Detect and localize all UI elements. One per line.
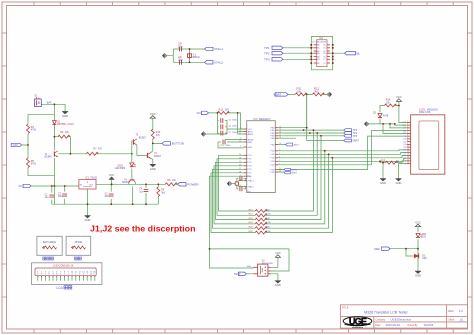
ground lcd left [380, 179, 386, 186]
MCU left pins [244, 129, 247, 187]
LCD pin labels [402, 122, 407, 165]
LCD-CON pin stubs [38, 276, 95, 281]
svg-text:100n: 100n [247, 266, 253, 268]
svg-text:ZD1: ZD1 [422, 234, 427, 236]
decoupling caps wires [206, 113, 243, 134]
svg-text:IC1: IC1 [85, 176, 89, 179]
J1 caption glyphs [43, 257, 54, 260]
svg-text:OUT: OUT [89, 184, 94, 186]
svg-text:Y0: Y0 [323, 56, 325, 58]
svg-text:TeCh03: TeCh03 [424, 323, 434, 327]
VCC symbol [415, 220, 421, 226]
svg-text:GND: GND [248, 147, 253, 149]
capacitor C12 [240, 187, 242, 192]
svg-text:470k: 470k [31, 129, 37, 132]
junction [382, 123, 384, 125]
junction [157, 183, 159, 185]
svg-text:TEST: TEST [234, 272, 241, 276]
svg-text:VCC: VCC [109, 174, 114, 177]
svg-text:13: 13 [407, 154, 409, 156]
MCU IC3 body [247, 121, 276, 193]
svg-text:TP1: TP1 [264, 46, 270, 50]
encoder pins [253, 267, 271, 274]
junction [87, 203, 89, 205]
junction [132, 203, 134, 205]
svg-text:GND: GND [248, 142, 253, 144]
junction [54, 103, 56, 105]
MCU right pins [275, 128, 278, 172]
resistor R16 [385, 104, 397, 107]
capacitor C1 [49, 195, 54, 197]
wire [369, 101, 407, 133]
transistor T4 pnp [129, 177, 136, 184]
capacitor C11 [240, 176, 242, 181]
svg-text:16: 16 [407, 162, 409, 164]
capacitor C6 [221, 124, 223, 129]
svg-text:14: 14 [407, 157, 409, 159]
svg-text:9: 9 [407, 143, 408, 145]
resistor R13 [218, 111, 230, 114]
svg-text:LED1: LED1 [117, 165, 123, 167]
svg-text:Y2: Y2 [323, 63, 325, 65]
svg-text:REF: REF [375, 247, 381, 251]
svg-text:1/1: 1/1 [460, 318, 464, 322]
node BL label right [345, 52, 356, 55]
svg-text:ADC7: ADC7 [294, 144, 301, 147]
ground under battery [62, 111, 68, 118]
junction [51, 185, 53, 187]
wire [167, 49, 205, 62]
svg-text:IC3: IC3 [254, 118, 259, 121]
svg-text:LED-3MM: LED-3MM [115, 168, 125, 170]
svg-text:X0: X0 [323, 45, 325, 47]
svg-text:CAT: CAT [13, 143, 19, 147]
junction [131, 153, 133, 155]
svg-text:15: 15 [407, 159, 409, 161]
transistor T2 npn [145, 152, 152, 159]
svg-text:UGE Electronics: UGE Electronics [391, 318, 412, 322]
LCD pins [407, 122, 411, 163]
ground [275, 281, 281, 288]
svg-text:REV:: REV: [448, 309, 454, 313]
node XTAL1 label [205, 47, 214, 50]
svg-text:470: 470 [98, 147, 103, 150]
svg-text:Y1: Y1 [323, 59, 325, 61]
resistor R23 [255, 218, 267, 221]
resistor R10 [151, 129, 154, 139]
IC2 right pins [327, 45, 330, 63]
node XTAL2 label [205, 61, 214, 64]
svg-text:XTAL1: XTAL1 [214, 47, 223, 51]
LCD-CON inner header [35, 268, 96, 276]
svg-text:22p: 22p [178, 44, 183, 48]
node TP1 label [272, 46, 283, 49]
resistor R12 [313, 93, 325, 96]
capacitor C10 AREF [218, 140, 244, 148]
svg-text:8: 8 [407, 140, 408, 142]
diode D2 [378, 114, 382, 118]
connector J2 body [66, 236, 91, 255]
node TP3 label [272, 58, 283, 61]
svg-text:3: 3 [71, 274, 72, 276]
svg-text:3: 3 [407, 126, 408, 128]
capacitor C2 [62, 194, 67, 196]
wire box around IC2 [283, 37, 345, 70]
IC2 left pins [314, 45, 317, 63]
svg-text:Sheet:: Sheet: [448, 318, 455, 321]
ground sideways right [328, 92, 332, 97]
resistor R7 [86, 152, 98, 155]
regulator IC1 [79, 180, 96, 190]
svg-text:470k: 470k [31, 163, 37, 166]
svg-text:3k3: 3k3 [314, 89, 319, 93]
MCU crystal cluster wires [232, 178, 246, 189]
svg-text:BL: BL [357, 51, 361, 55]
node TP2 label [272, 52, 283, 55]
junction [64, 185, 66, 187]
resistor R2 [58, 135, 70, 138]
LCD1 screen [419, 121, 439, 170]
svg-text:BAT: BAT [47, 101, 52, 105]
svg-text:A3: A3 [317, 52, 319, 55]
resistor R21 [255, 210, 267, 213]
junction [145, 203, 147, 205]
IC2 pin labels [317, 44, 325, 65]
svg-text:X3: X3 [323, 53, 325, 55]
ground [415, 271, 421, 278]
svg-text:2013-05-04: 2013-05-04 [386, 323, 401, 327]
svg-text:XTAL2: XTAL2 [248, 185, 255, 188]
svg-text:1: 1 [407, 121, 408, 123]
node TP3 label right [344, 134, 352, 137]
wire battery to gnd [22, 104, 178, 215]
wire MCU left port bundle [210, 155, 290, 268]
resistor R11 [295, 93, 307, 96]
svg-text:TP2: TP2 [264, 51, 270, 55]
svg-text:B0: B0 [317, 56, 319, 58]
ground lcd right [396, 179, 402, 186]
svg-text:7: 7 [87, 274, 88, 276]
node POWER label [178, 183, 187, 186]
LED D3 [414, 254, 419, 259]
transistor T1 [52, 150, 59, 157]
svg-text:BC846: BC846 [45, 157, 53, 159]
svg-text:XTAL2: XTAL2 [214, 61, 223, 65]
svg-text:BATCABLE: BATCABLE [43, 240, 57, 244]
transistor T3 pnp [134, 139, 137, 145]
svg-text:10: 10 [407, 146, 409, 148]
capacitor C9 [180, 60, 182, 65]
resistor R3 [27, 124, 30, 134]
capacitor C8 [180, 47, 182, 52]
ground sideways [162, 53, 166, 58]
zener diode ZD1 [416, 233, 422, 237]
svg-text:BC807: BC807 [122, 182, 130, 184]
wire VCC to R10 [153, 118, 162, 151]
svg-text:MEGA8-P: MEGA8-P [259, 118, 271, 121]
resistor R5 [27, 158, 30, 168]
svg-text:MOSI: MOSI [292, 169, 298, 171]
svg-text:TP3: TP3 [264, 57, 270, 61]
svg-text:VBAT: VBAT [353, 140, 360, 143]
junction [237, 112, 239, 114]
resistor R6 [165, 183, 177, 186]
node TP1 label right [344, 129, 352, 132]
svg-text:IC2: IC2 [319, 37, 323, 40]
VCC symbol [275, 251, 281, 257]
svg-text:1.0: 1.0 [459, 309, 463, 313]
ground under regulator [85, 216, 91, 223]
svg-text:100n: 100n [232, 119, 238, 121]
op IC2 body [317, 40, 327, 67]
svg-text:BZX55C_C2V4: BZX55C_C2V4 [57, 123, 74, 126]
capacitor C7 [221, 131, 223, 136]
svg-text:100n: 100n [226, 145, 232, 147]
svg-text:BC807: BC807 [139, 137, 147, 139]
svg-text:R13: R13 [219, 108, 224, 111]
svg-text:TITLE:: TITLE: [342, 307, 349, 309]
wire MCU right test lines [278, 128, 343, 139]
svg-text:MISO: MISO [292, 173, 298, 175]
LCD-CON body [32, 263, 102, 285]
junction [70, 153, 72, 155]
frame tick marks bottom [34, 329, 453, 333]
svg-text:7: 7 [407, 137, 408, 139]
svg-text:100n: 100n [232, 132, 238, 134]
wire VCC feed [209, 113, 244, 134]
ground sideways [364, 121, 368, 126]
wire bus verticals [265, 130, 332, 232]
svg-text:74HC4052D: 74HC4052D [315, 41, 327, 43]
svg-text:10k: 10k [297, 89, 302, 93]
svg-text:4148: 4148 [383, 116, 389, 118]
node DC label [23, 184, 31, 187]
svg-text:BC817: BC817 [154, 156, 162, 158]
ground under T2 [150, 164, 156, 171]
svg-text:B1: B1 [317, 59, 319, 61]
LCD pin numbers [407, 121, 409, 164]
svg-text:12: 12 [407, 151, 409, 153]
wire left pin [252, 266, 254, 269]
junction [306, 94, 308, 96]
junction [189, 48, 191, 50]
svg-text:Company:: Company: [375, 319, 386, 321]
svg-text:6: 6 [407, 135, 408, 137]
svg-text:5: 5 [407, 132, 408, 134]
MCU pin labels left [248, 129, 255, 189]
resistor R22 [255, 214, 267, 217]
svg-text:XTAL1: XTAL1 [248, 180, 255, 183]
svg-text:B2: B2 [317, 63, 319, 65]
svg-text:DC: DC [19, 184, 23, 188]
LED LED1 [130, 163, 136, 167]
svg-text:100n: 100n [105, 196, 111, 198]
MCU pin labels right [271, 128, 276, 174]
capacitor C4 [144, 189, 149, 191]
wire T2 [151, 151, 153, 164]
junction [110, 203, 112, 205]
wire VBAT sense down [307, 94, 344, 140]
node VBAT label [275, 93, 288, 96]
junction pin squares [310, 44, 333, 64]
encoder S2 body [258, 264, 268, 276]
svg-text:1602-COB: 1602-COB [419, 111, 431, 114]
wire MCU right lcd data lines [278, 131, 407, 170]
svg-text:LCD: LCD [57, 286, 64, 290]
svg-text:22p: 22p [178, 58, 183, 62]
junction [217, 112, 219, 114]
svg-text:2: 2 [68, 274, 69, 276]
svg-text:AREF: AREF [248, 133, 254, 136]
svg-text:electronics: electronics [352, 326, 364, 329]
node CAT label [11, 143, 22, 146]
svg-text:5: 5 [79, 274, 80, 276]
node VBAT adc label right [344, 139, 352, 142]
svg-text:JP10E: JP10E [75, 240, 83, 244]
svg-text:POWER: POWER [187, 183, 199, 187]
VCC symbol middle [150, 112, 156, 118]
LCD-CON pin numbers [37, 271, 96, 273]
resistor R25 [255, 227, 267, 230]
junction [27, 144, 29, 146]
junction [382, 162, 384, 164]
svg-text:6: 6 [83, 274, 84, 276]
svg-text:2: 2 [407, 124, 408, 126]
J2 caption glyphs [75, 257, 82, 260]
ground sideways crystal [227, 181, 231, 186]
svg-text:3: 3 [240, 146, 241, 148]
LCD1 outer body [411, 115, 445, 174]
VCC filled symbol at regulator output [109, 177, 114, 180]
svg-text:4: 4 [407, 129, 408, 131]
svg-text:X1: X1 [323, 48, 325, 50]
capacitor C5 [221, 118, 223, 123]
battery G1 [34, 99, 41, 107]
junction [189, 61, 191, 63]
svg-text:100n: 100n [58, 196, 64, 198]
svg-text:M328 Transistor LCR Tester: M328 Transistor LCR Tester [364, 311, 408, 315]
wire [390, 227, 419, 271]
junction [405, 248, 407, 250]
node TEST label [238, 272, 246, 275]
svg-text:100n: 100n [232, 126, 238, 128]
resistor R9 [157, 187, 160, 197]
resistor R24 [255, 222, 267, 225]
svg-text:A0: A0 [317, 44, 319, 47]
node ISP label [278, 170, 284, 173]
node VCC label [202, 111, 209, 114]
svg-text:2V5: 2V5 [422, 237, 427, 239]
node REF label [382, 247, 391, 250]
junction [145, 183, 147, 185]
crystal Q1 [235, 182, 238, 185]
svg-text:11: 11 [407, 148, 409, 150]
junction [54, 136, 56, 138]
resistor R15 backlight [383, 161, 407, 163]
svg-text:TP3: TP3 [353, 135, 358, 138]
junction bus dots [313, 129, 315, 131]
connector J1 body [37, 236, 62, 255]
svg-text:o: o [45, 274, 46, 276]
node AREF label [278, 144, 285, 146]
svg-text:78L05: 78L05 [90, 176, 97, 179]
wire gnd stems [380, 161, 407, 178]
svg-text:UGE: UGE [349, 316, 367, 326]
svg-text:VCC: VCC [197, 111, 203, 115]
VCC symbol [396, 95, 402, 101]
frame tick marks right [468, 33, 473, 297]
wire [288, 94, 328, 128]
wire loop [246, 249, 289, 281]
junction [111, 183, 113, 185]
svg-text:ENCODER: ENCODER [262, 263, 273, 265]
svg-text:A1: A1 [317, 47, 319, 50]
wire T3 base chain [132, 141, 148, 177]
junction [54, 185, 56, 187]
MCU pin numbers [239, 126, 281, 187]
svg-text:1: 1 [64, 274, 65, 276]
frame tick marks top [34, 2, 453, 6]
resistor R26 [255, 231, 267, 234]
svg-text:VBAT: VBAT [274, 93, 282, 97]
frame tick marks left [2, 33, 7, 297]
svg-text:0: 0 [60, 274, 61, 276]
svg-text:8MHz: 8MHz [193, 55, 201, 59]
title block frame [340, 305, 467, 328]
svg-text:Date:: Date: [375, 324, 381, 327]
svg-text:LED: LED [422, 258, 427, 260]
svg-text:3k3: 3k3 [161, 192, 166, 195]
svg-text:4: 4 [75, 274, 76, 276]
junction [152, 143, 154, 145]
crystal Y1 [188, 54, 192, 58]
logo UGE [343, 316, 372, 329]
node TP2 label right [344, 132, 352, 135]
junction [209, 248, 211, 250]
capacitor C3 [109, 194, 114, 196]
node BUTTON label [162, 142, 171, 145]
svg-text:100: 100 [225, 108, 230, 111]
svg-text:Drawn By:: Drawn By: [408, 324, 419, 327]
svg-text:BUTTON: BUTTON [172, 142, 184, 146]
svg-text:LCD-CON1602-16: LCD-CON1602-16 [53, 264, 74, 267]
svg-text:J1,J2 see the discerption: J1,J2 see the discerption [90, 223, 196, 233]
ground sideways left of caps [201, 132, 205, 137]
zener diode D1 [53, 121, 57, 125]
